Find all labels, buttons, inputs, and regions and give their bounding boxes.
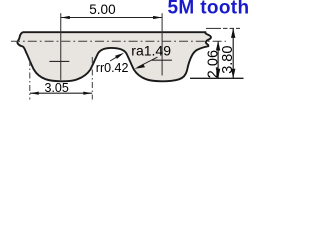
- 5.00 left arrow: [61, 16, 70, 19]
- pitch dash-dot line: [11, 40, 226, 42]
- rr0.42 leader: [110, 55, 121, 61]
- 3.05 left extension dash-dot: [29, 60, 31, 100]
- svg-text:5.00: 5.00: [89, 2, 115, 17]
- 3.05 dimension line: [30, 92, 92, 94]
- svg-text:3.05: 3.05: [45, 81, 69, 95]
- tooth1 cross tick: [49, 60, 69, 62]
- 5.00 right arrow: [153, 16, 162, 19]
- svg-text:rr0.42: rr0.42: [96, 61, 129, 75]
- 2.06 dimension line: [217, 41, 219, 78]
- 3.80 dimension line: [232, 29, 234, 79]
- ra1.49 leader: [138, 57, 158, 67]
- 3.05 right arrow: [83, 92, 92, 95]
- tooth2 centerline (5.00 right extension): [161, 13, 163, 75]
- tooth2 cross tick: [152, 59, 172, 61]
- 3.05 left arrow: [30, 92, 39, 95]
- tooth1 centerline (5.00 left extension): [60, 13, 62, 80]
- 5.00 dimension line: [61, 17, 162, 19]
- svg-text:3.80: 3.80: [220, 46, 236, 74]
- bottom extension line (tooth tip): [190, 77, 244, 79]
- belt cross-section body with two teeth: [17, 32, 211, 81]
- top-right extension line for 3.80 (part solid, part dashed): [206, 27, 221, 29]
- svg-text:5M tooth: 5M tooth: [168, 0, 249, 19]
- svg-text:ra1.49: ra1.49: [131, 43, 171, 59]
- 3.05 right extension dash-dot: [91, 57, 93, 100]
